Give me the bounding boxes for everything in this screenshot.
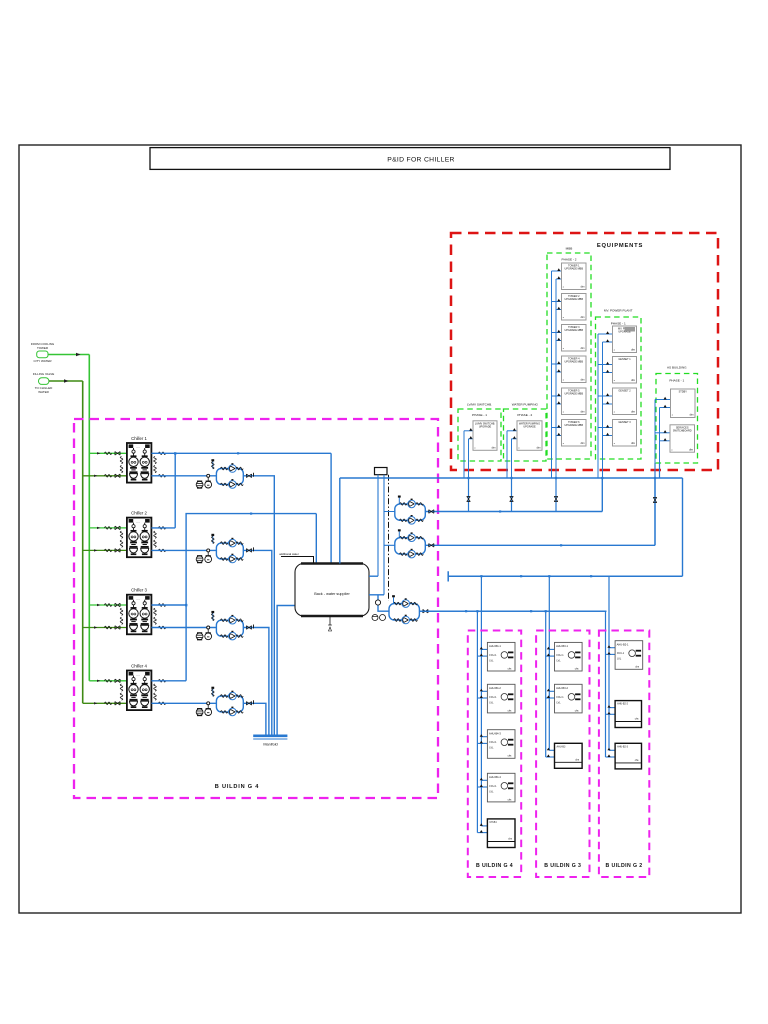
wire: pump A discharge riser up to header1 (601, 478, 603, 512)
pipe stubs into AHU B4 (477, 823, 487, 832)
wire: C2 bottom pipe to pump suction (151, 549, 216, 551)
svg-text:AHU-B4-3: AHU-B4-3 (489, 731, 501, 735)
equipment box W5b (670, 425, 695, 452)
svg-text:FCU-1: FCU-1 (617, 652, 625, 655)
svg-text:LV/MV SWITCHB.: LV/MV SWITCHB. (467, 403, 492, 407)
green branch pipes into chiller C2 (83, 526, 127, 552)
pump P2B (221, 554, 244, 562)
svg-text:FCU-1: FCU-1 (489, 785, 497, 788)
green branch pipes into chiller C1 (83, 452, 127, 478)
feed stubs into MV power plant box (598, 393, 613, 404)
wire: G5 feed risers below red box (655, 463, 660, 478)
building supply drops from header2 (480, 576, 482, 826)
additional water inlet (279, 552, 313, 564)
tank bottom drain stub (328, 616, 332, 631)
pipe stubs into FCU B4-1 (477, 647, 487, 656)
pipe stubs into FCU B3-1 (546, 647, 555, 656)
equipment box W3e (562, 388, 587, 415)
svg-text:LVL: LVL (489, 659, 494, 662)
svg-text:PHASE - 2: PHASE - 2 (562, 258, 577, 262)
manifold bar (253, 736, 287, 739)
equipment box W4d (613, 420, 637, 447)
flow meter box above header (375, 468, 388, 475)
wire: header2 to buildings (448, 571, 682, 581)
pipe stubs into AHU B2-2 (606, 705, 616, 714)
feed stubs into MBB tower box (552, 425, 562, 436)
secondary pump group SC bypass loop (389, 604, 419, 620)
wire: tank right outlet upper (369, 575, 378, 577)
wire: C1 bottom pipe to pump suction (151, 475, 216, 477)
wire: green supply 1 horizontal (48, 354, 89, 356)
air vent on SA (398, 496, 401, 504)
svg-text:UPGRADE: UPGRADE (479, 425, 492, 428)
pump P4B (221, 707, 244, 715)
wire: pump SC discharge (419, 610, 606, 612)
wire: riser2 C3/C4 up to mid header (186, 514, 316, 681)
equipment box W3c (562, 325, 587, 352)
blue pipes out of chiller C2 right side (154, 527, 166, 552)
unit box B2-3 (AHU) (615, 743, 641, 769)
svg-text:AHU-B2-1: AHU-B2-1 (617, 642, 629, 646)
pump group P3 suction junction and gauges (196, 626, 211, 640)
off-page connector: make-up water source 1 (31, 342, 55, 363)
equipment box W3b (562, 294, 587, 321)
svg-text:PHASE - 1: PHASE - 1 (472, 413, 487, 417)
svg-text:GENSET 1: GENSET 1 (618, 358, 631, 361)
feed risers for AS building (654, 400, 656, 479)
wire: tank drain to manifold bundle (277, 606, 303, 736)
feed risers for LV switchboard 1 (463, 431, 465, 478)
wire: C4 top pipe to riser2 (151, 680, 186, 682)
junction dots building headers (465, 575, 550, 612)
pump P2A (221, 539, 244, 547)
svg-text:EQUIPMENTS: EQUIPMENTS (597, 243, 643, 249)
dashed boundary: EQUIPMENTS (451, 233, 718, 470)
equipment box W3d (562, 356, 587, 383)
wire: header1 distribution to equipments (340, 477, 683, 479)
wire: pump P3 discharge to manifold bundle (243, 628, 269, 736)
svg-text:LVL: LVL (489, 747, 494, 750)
svg-text:UPGRADE: UPGRADE (523, 425, 536, 428)
dashed boundary: MBB TOWER (547, 253, 591, 459)
svg-text:FCU-1: FCU-1 (489, 741, 497, 744)
junction dots header1 (467, 477, 656, 577)
pump P1B (221, 480, 244, 488)
pump P3A (221, 616, 244, 624)
svg-text:WATER PUMPING: WATER PUMPING (512, 403, 539, 407)
pump group P1 air vent (211, 459, 214, 469)
pump SC2 (394, 615, 418, 623)
pipe stubs into FCU B3-2 (546, 689, 555, 698)
equipment box W2 (517, 421, 542, 451)
pump group P2 bypass loop (216, 543, 243, 559)
wire: suction riser 2 with pump stubs (384, 475, 395, 595)
dashed boundary: BUILDING 4 riser column (468, 631, 521, 878)
pump P4A (221, 691, 244, 699)
check valve on P1 discharge (246, 473, 253, 478)
pump SB1 (400, 533, 424, 541)
svg-text:AHU-B3-1: AHU-B3-1 (556, 644, 568, 648)
wire: tank right outlet lower with drop to pump C (369, 595, 389, 611)
check valve on P3 discharge (246, 625, 253, 630)
svg-text:dim: dim (689, 448, 693, 451)
chiller C1 body (127, 443, 151, 483)
chiller C4 body (127, 671, 151, 711)
wire: green supply 2 vertical riser (82, 381, 84, 703)
pump group P2 air vent (211, 534, 214, 544)
svg-text:FILLING VALVE: FILLING VALVE (33, 372, 54, 376)
feed stubs into MBB tower box (552, 268, 562, 279)
dashed boundary: BUILDING 2 riser column (599, 631, 649, 878)
wire: tank inlet pipe 2 (315, 514, 317, 564)
svg-text:CH-B4: CH-B4 (489, 821, 497, 824)
secondary pump group SA bypass loop (395, 504, 426, 520)
pipe stubs into AHU B3 (546, 748, 555, 757)
wire: pump P2 discharge to manifold bundle (243, 550, 271, 735)
svg-text:Chiller 3: Chiller 3 (131, 588, 147, 593)
svg-text:AHU-B3: AHU-B3 (557, 745, 566, 748)
air vent on SC (392, 595, 395, 603)
svg-text:additional water: additional water (279, 552, 299, 556)
feed risers for water pumping (506, 431, 508, 478)
check valve on SA discharge (429, 510, 434, 514)
svg-text:LVL: LVL (617, 658, 622, 661)
svg-text:dim: dim (581, 379, 585, 382)
wire: C3 top pipe to riser2 (151, 604, 186, 606)
svg-text:dim: dim (631, 411, 635, 414)
equipment box W3a (562, 263, 587, 290)
equipment box W4b (613, 357, 637, 384)
check valve on SC discharge (423, 609, 428, 613)
svg-text:FCU-1: FCU-1 (489, 654, 497, 657)
svg-text:TOWER: TOWER (37, 346, 49, 350)
svg-text:Chiller 2: Chiller 2 (131, 510, 147, 515)
flow arrow on green supply 1 (76, 353, 81, 356)
chiller C2 body (127, 518, 151, 558)
pump group P4 air vent (211, 687, 214, 697)
air vent on SB (398, 529, 401, 537)
feed stubs into MV power plant box (598, 362, 613, 373)
svg-text:dim: dim (581, 442, 585, 445)
wire: pump P1 discharge to manifold bundle (243, 476, 274, 736)
feed stubs into AS building box (655, 430, 671, 441)
svg-text:dim: dim (492, 447, 496, 450)
fan coil unit B2-1 (615, 641, 643, 670)
feed stubs into MV power plant box (598, 425, 613, 436)
pump group P2 suction junction and gauges (196, 549, 211, 563)
svg-text:dim: dim (537, 447, 541, 450)
svg-text:P&ID FOR CHILLER: P&ID FOR CHILLER (387, 157, 455, 164)
svg-text:PHASE - 1: PHASE - 1 (611, 322, 626, 326)
svg-text:FCU-1: FCU-1 (557, 696, 565, 699)
svg-text:AHU-B2-3: AHU-B2-3 (617, 745, 629, 748)
fan coil unit B3-1 (555, 642, 583, 671)
valve circle on pump C suction (375, 600, 380, 605)
svg-text:LVL: LVL (489, 790, 494, 793)
blue pipes out of chiller C4 right side (154, 680, 166, 705)
wire: pump B discharge riser up to header1 (654, 478, 656, 545)
G5 riser down to pump B header (654, 478, 656, 545)
pipe stubs into FCU B4-2 (477, 689, 487, 698)
pipe stubs into FCU B4-3 (477, 734, 487, 743)
svg-text:AHU-B4-1: AHU-B4-1 (489, 644, 501, 648)
svg-text:MV. POWER PLANT: MV. POWER PLANT (604, 309, 633, 313)
pump group P4 bypass loop (216, 696, 243, 712)
pump group P1 suction junction and gauges (196, 474, 211, 488)
blue pipes out of chiller C3 right side (154, 604, 166, 629)
svg-text:dim: dim (581, 286, 585, 289)
svg-text:dim: dim (631, 442, 635, 445)
feed stubs into water pumping box (507, 428, 517, 439)
feed stubs into MV power plant box (598, 331, 613, 342)
feed stubs into MBB tower box (552, 361, 562, 372)
svg-text:AHU-B4-4: AHU-B4-4 (489, 775, 501, 779)
secondary pump group SB bypass loop (395, 538, 426, 554)
dash-dot instrument line (388, 475, 390, 601)
svg-text:WATER: WATER (38, 390, 49, 394)
dashed boundary: WATER PUMPING PHASE 2 (504, 409, 547, 461)
pipe stubs into FCU B2-1 (606, 645, 616, 654)
svg-text:SWITCHBOARD: SWITCHBOARD (673, 429, 692, 432)
blue pipes out of chiller C1 right side (154, 452, 166, 477)
svg-text:Chiller 4: Chiller 4 (131, 663, 147, 668)
svg-text:STDBY: STDBY (679, 391, 688, 394)
off-page connector: filling valve source 2 (33, 372, 54, 394)
unit box B3-3 (AHU) (555, 743, 583, 768)
equipment box W1 (473, 421, 497, 451)
feed stubs into AS building box (655, 397, 671, 408)
svg-text:GENSET 3: GENSET 3 (618, 421, 631, 424)
svg-text:Chiller 1: Chiller 1 (131, 436, 147, 441)
building return risers to pump C header (476, 611, 478, 832)
svg-text:FCU-1: FCU-1 (489, 696, 497, 699)
svg-text:UPGRADE MBB: UPGRADE MBB (565, 424, 584, 427)
svg-text:UPGRADE MBB: UPGRADE MBB (565, 361, 584, 364)
dashed boundary: AS BUILDING (656, 374, 698, 464)
green branch pipes into chiller C3 (83, 603, 127, 629)
svg-text:B UILDIN G 4: B UILDIN G 4 (476, 863, 513, 869)
unit box B2-2 (AHU) (615, 701, 641, 728)
dashed boundary: BUILDING 3 riser column (536, 631, 589, 878)
svg-text:AS BUILDING: AS BUILDING (667, 366, 687, 370)
feed risers for MBB tower (551, 271, 553, 478)
svg-text:B UILDIN G 2: B UILDIN G 2 (605, 863, 642, 869)
svg-text:MBB: MBB (566, 247, 573, 251)
pump group P3 bypass loop (216, 620, 243, 636)
svg-text:dim: dim (690, 414, 694, 417)
pump SA1 (400, 499, 424, 507)
fan coil unit B4-2 (487, 684, 515, 713)
feed risers for MV power plant (597, 334, 599, 478)
svg-text:Manifold: Manifold (263, 743, 277, 747)
wire: riser joining C2 top to C1 header (151, 453, 175, 528)
svg-text:PHASE - 1: PHASE - 1 (669, 379, 684, 383)
svg-text:AHU-B2-2: AHU-B2-2 (617, 703, 629, 706)
equipment box W3f (562, 420, 587, 447)
svg-text:Back - water supplier: Back - water supplier (314, 592, 350, 596)
feed stubs into MBB tower box (552, 330, 562, 341)
pipe stubs into AHU B2-3 (606, 748, 616, 757)
pump SB2 (400, 550, 424, 558)
svg-text:LVL: LVL (557, 659, 562, 662)
feed stubs into LV switchboard 1 box (464, 428, 473, 439)
pump SA2 (400, 516, 424, 524)
svg-text:LVL: LVL (557, 701, 562, 704)
svg-text:UPGRADE MBB: UPGRADE MBB (565, 329, 584, 332)
svg-text:UPGRADE MBB: UPGRADE MBB (565, 268, 584, 271)
title block (150, 148, 670, 170)
svg-text:UPGRADE MBB: UPGRADE MBB (565, 393, 584, 396)
page frame (19, 145, 741, 913)
strainer circles at pump C suction (372, 615, 386, 621)
unit box B4-5 (AHU) (487, 819, 515, 848)
svg-text:GENSET 2: GENSET 2 (618, 390, 631, 393)
wire: pump SA discharge (425, 511, 602, 513)
fan coil unit B4-3 (487, 730, 515, 759)
dashed boundary: MV POWER PLANT (596, 317, 642, 459)
svg-text:dim: dim (631, 349, 635, 352)
pump group P1 bypass loop (216, 469, 243, 485)
wire: pump C discharge header to building returns (419, 610, 606, 612)
svg-text:CITY WATER: CITY WATER (33, 359, 52, 363)
equipment box W4c (613, 388, 637, 415)
equipment box W4a (613, 326, 637, 353)
feed stubs into MBB tower box (552, 299, 562, 310)
svg-text:FCU-1: FCU-1 (557, 654, 565, 657)
svg-text:AHU-B4-2: AHU-B4-2 (489, 686, 501, 690)
svg-text:UPGRADE MBB: UPGRADE MBB (565, 298, 584, 301)
feed stubs into MBB tower box (552, 393, 562, 404)
wire: riser header1 down to header2 (682, 478, 684, 576)
pump P1A (221, 464, 244, 472)
fan coil unit B3-2 (555, 684, 583, 713)
svg-text:dim: dim (581, 347, 585, 350)
wire: green supply 2 horizontal (49, 380, 83, 382)
check valve on P2 discharge (246, 547, 253, 552)
flow arrow on green supply 2 (64, 379, 69, 382)
wire: green supply 1 vertical riser (88, 355, 90, 681)
junction dots on chilled water headers (174, 452, 252, 606)
fan coil unit B4-4 (487, 773, 515, 802)
green branch pipes into chiller C4 (83, 679, 127, 705)
svg-text:LVL: LVL (489, 701, 494, 704)
wire: pump SB discharge (425, 544, 655, 546)
equipment feed drop risers with valves (468, 478, 470, 512)
wire: C1 top pipe to tank header (151, 452, 331, 454)
equipment box W5a (671, 389, 696, 418)
svg-text:B UILDIN G 3: B UILDIN G 3 (544, 863, 581, 869)
wire: C3 bottom pipe to pump suction (151, 627, 216, 629)
check valve on P4 discharge (246, 700, 253, 705)
dashed boundary: BUILDING 4 plant room (74, 419, 438, 798)
wire: C4 bottom pipe to pump suction (151, 702, 216, 704)
svg-text:dim: dim (581, 316, 585, 319)
svg-text:dim: dim (581, 411, 585, 414)
pump group P3 air vent (211, 611, 214, 621)
svg-text:AHU-B3-2: AHU-B3-2 (556, 686, 568, 690)
svg-text:B UILDIN G 4: B UILDIN G 4 (215, 784, 259, 790)
wire: pump P4 discharge to manifold bundle (243, 703, 266, 735)
svg-text:dim: dim (631, 379, 635, 382)
check valve on SB discharge (429, 544, 434, 548)
dashed boundary: LV SWITCHBOARD PHASE 1 (458, 409, 501, 461)
pipe stubs into FCU B4-4 (477, 778, 487, 787)
pump group P4 suction junction and gauges (196, 702, 211, 716)
pump P3B (221, 632, 244, 640)
chiller C3 body (127, 595, 151, 635)
buffer tank: back-water supplier (295, 564, 369, 617)
fan coil unit B4-1 (487, 642, 515, 671)
svg-text:PHASE - 2: PHASE - 2 (517, 413, 532, 417)
pump SC1 (394, 599, 418, 607)
wire: tank inlet pipe from C1/C2 header (330, 453, 332, 563)
wire: tank outlet to header1 riser (339, 478, 341, 564)
wire: suction riser 1 from meter box (377, 475, 379, 577)
